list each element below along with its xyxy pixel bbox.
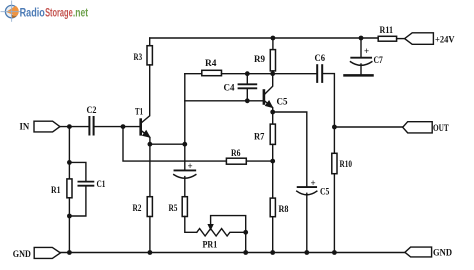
transistor T1 <box>139 118 142 135</box>
svg-text:R1: R1 <box>51 186 61 196</box>
svg-text:R9: R9 <box>254 55 265 65</box>
svg-text:R10: R10 <box>340 160 353 170</box>
wire R2 bottom <box>149 217 151 253</box>
terminal GND right <box>405 247 432 257</box>
node gnd R1 <box>67 250 72 255</box>
svg-text:GND: GND <box>13 250 31 260</box>
node IN junction <box>67 124 72 129</box>
node R1C1 top <box>67 160 72 165</box>
wire C1 branch top <box>69 162 86 181</box>
node gnd R8 <box>270 250 275 255</box>
capacitor electrolytic above R5 <box>175 169 196 171</box>
wire C4 bottom pin <box>246 89 248 101</box>
wire PR1 to gnd <box>245 232 247 252</box>
resistor R8 <box>270 198 275 217</box>
wire R5 bottom to PR1 <box>185 217 197 233</box>
svg-text:C1: C1 <box>97 180 106 190</box>
resistor R7 <box>270 124 275 144</box>
node R9 bottom <box>270 71 275 76</box>
wire R10 bottom <box>333 174 335 253</box>
svg-text:+: + <box>188 161 193 171</box>
wire T2 base line <box>185 100 263 102</box>
wire emitter to C5 cap <box>273 112 307 187</box>
wire R7 bottom <box>272 144 274 161</box>
wire R1 bottom pin <box>68 198 70 216</box>
terminal OUT <box>403 122 433 133</box>
svg-text:+: + <box>364 46 369 56</box>
capacitor C4 <box>239 83 257 85</box>
node C4 top <box>245 71 250 76</box>
svg-text:R4: R4 <box>205 59 217 69</box>
resistor R4 <box>202 70 222 75</box>
svg-text:GND: GND <box>433 249 452 259</box>
wire R9 bottom pin <box>272 71 274 74</box>
wire C5 to gnd <box>306 193 308 252</box>
wire R7 <box>272 112 274 124</box>
svg-text:R3: R3 <box>134 53 143 63</box>
logo icon horn <box>6 6 19 16</box>
wire GND rail <box>60 252 405 254</box>
svg-text:R8: R8 <box>279 205 289 215</box>
wire top rail <box>150 37 379 39</box>
transistor T2 (labelled C5) <box>263 89 266 105</box>
capacitor C2 <box>88 117 90 135</box>
svg-text:C2: C2 <box>87 106 97 116</box>
capacitor C5 electrolytic <box>298 186 316 188</box>
wire C2 to T1 base <box>94 126 139 128</box>
wire R3 bottom to T1 collector <box>141 65 150 123</box>
capacitor C1 <box>78 181 93 183</box>
ground bar <box>345 74 373 77</box>
wire T1 emitter node <box>148 142 153 147</box>
svg-text:C5: C5 <box>277 98 288 108</box>
wire R6 to R7/R8 node <box>246 160 272 162</box>
terminal IN <box>34 121 60 132</box>
wire R3 top pin <box>149 38 151 46</box>
svg-text:C5: C5 <box>320 188 330 198</box>
wire mid rail y73.7 <box>185 73 202 75</box>
svg-text:Radio: Radio <box>20 7 45 19</box>
wire C6 right to R10 column <box>323 74 335 154</box>
resistor R3 <box>147 46 152 65</box>
svg-text:OUT: OUT <box>433 124 449 134</box>
node T2 base line <box>245 98 250 103</box>
svg-text:R7: R7 <box>254 133 265 143</box>
potentiometer PR1 zigzag <box>197 229 246 236</box>
wire R5 column vertical <box>184 74 186 170</box>
wire T1 emitter diagonal <box>141 131 150 145</box>
wire C7 to ground bar <box>360 64 362 75</box>
resistor R11 <box>378 36 396 41</box>
wire to gnd rail <box>68 216 70 253</box>
wire C7 top pin <box>360 38 362 57</box>
logo icon circle <box>5 5 17 17</box>
node R1C1 bottom <box>67 214 72 219</box>
wire T2 collector <box>265 74 273 95</box>
wire R2 column <box>149 144 151 197</box>
wire R11 to +24V <box>397 38 405 40</box>
wire R8 bottom <box>272 217 274 253</box>
wire R4 right to C6 <box>222 73 318 75</box>
potentiometer PR1 wiper arrow <box>207 224 213 231</box>
wire R1/C1 top drop <box>68 127 70 163</box>
svg-text:R2: R2 <box>133 204 142 214</box>
wire R8 top <box>272 161 274 198</box>
svg-text:R11: R11 <box>380 26 394 36</box>
svg-text:C7: C7 <box>374 56 383 66</box>
node T2 emitter <box>270 110 275 115</box>
wire cap to R5 <box>184 177 186 197</box>
node R7 R8 R6 <box>270 159 275 164</box>
wire OUT <box>334 126 402 128</box>
node C7 top <box>359 36 364 41</box>
svg-text:+: + <box>311 178 316 188</box>
wire C4 top pin <box>246 74 248 84</box>
capacitor C6 <box>316 65 318 82</box>
wire C1 branch bottom <box>69 186 86 216</box>
svg-text:+24V: +24V <box>435 36 455 46</box>
capacitor C7 electrolytic <box>351 57 371 59</box>
wire feedback down and right to R6 <box>123 127 226 162</box>
svg-text:R5: R5 <box>169 204 178 214</box>
node gnd PR1 <box>243 250 248 255</box>
node gnd C5 <box>304 250 309 255</box>
wire T2 emitter <box>265 101 273 112</box>
svg-text:Storage: Storage <box>45 7 73 19</box>
resistor R9 <box>270 50 275 71</box>
resistor R6 <box>226 158 246 164</box>
logo icon crosshair <box>11 1 13 22</box>
resistor R2 <box>147 197 152 217</box>
svg-text:T1: T1 <box>135 108 143 118</box>
wire IN to C2 <box>60 126 89 128</box>
resistor R1 <box>67 179 72 198</box>
node R9 top <box>271 36 276 41</box>
node R5 column top <box>182 142 187 147</box>
svg-text:IN: IN <box>20 122 30 132</box>
wire R1 top pin <box>68 162 70 179</box>
node base junction <box>121 124 126 129</box>
wire R9 top pin <box>272 38 274 50</box>
node OUT <box>332 125 337 130</box>
svg-text:C6: C6 <box>315 54 326 64</box>
svg-text:.net: .net <box>73 7 88 19</box>
resistor R5 <box>182 197 187 217</box>
terminal GND left <box>34 247 60 258</box>
node gnd R10 <box>332 250 337 255</box>
wire emitter to R5 column <box>150 143 185 145</box>
node PR1 right <box>243 230 248 235</box>
terminal +24V <box>405 33 434 45</box>
resistor R10 <box>332 153 337 173</box>
node gnd R2 <box>148 250 153 255</box>
svg-text:R6: R6 <box>231 149 241 159</box>
svg-text:C4: C4 <box>224 84 235 94</box>
svg-text:PR1: PR1 <box>203 241 218 251</box>
